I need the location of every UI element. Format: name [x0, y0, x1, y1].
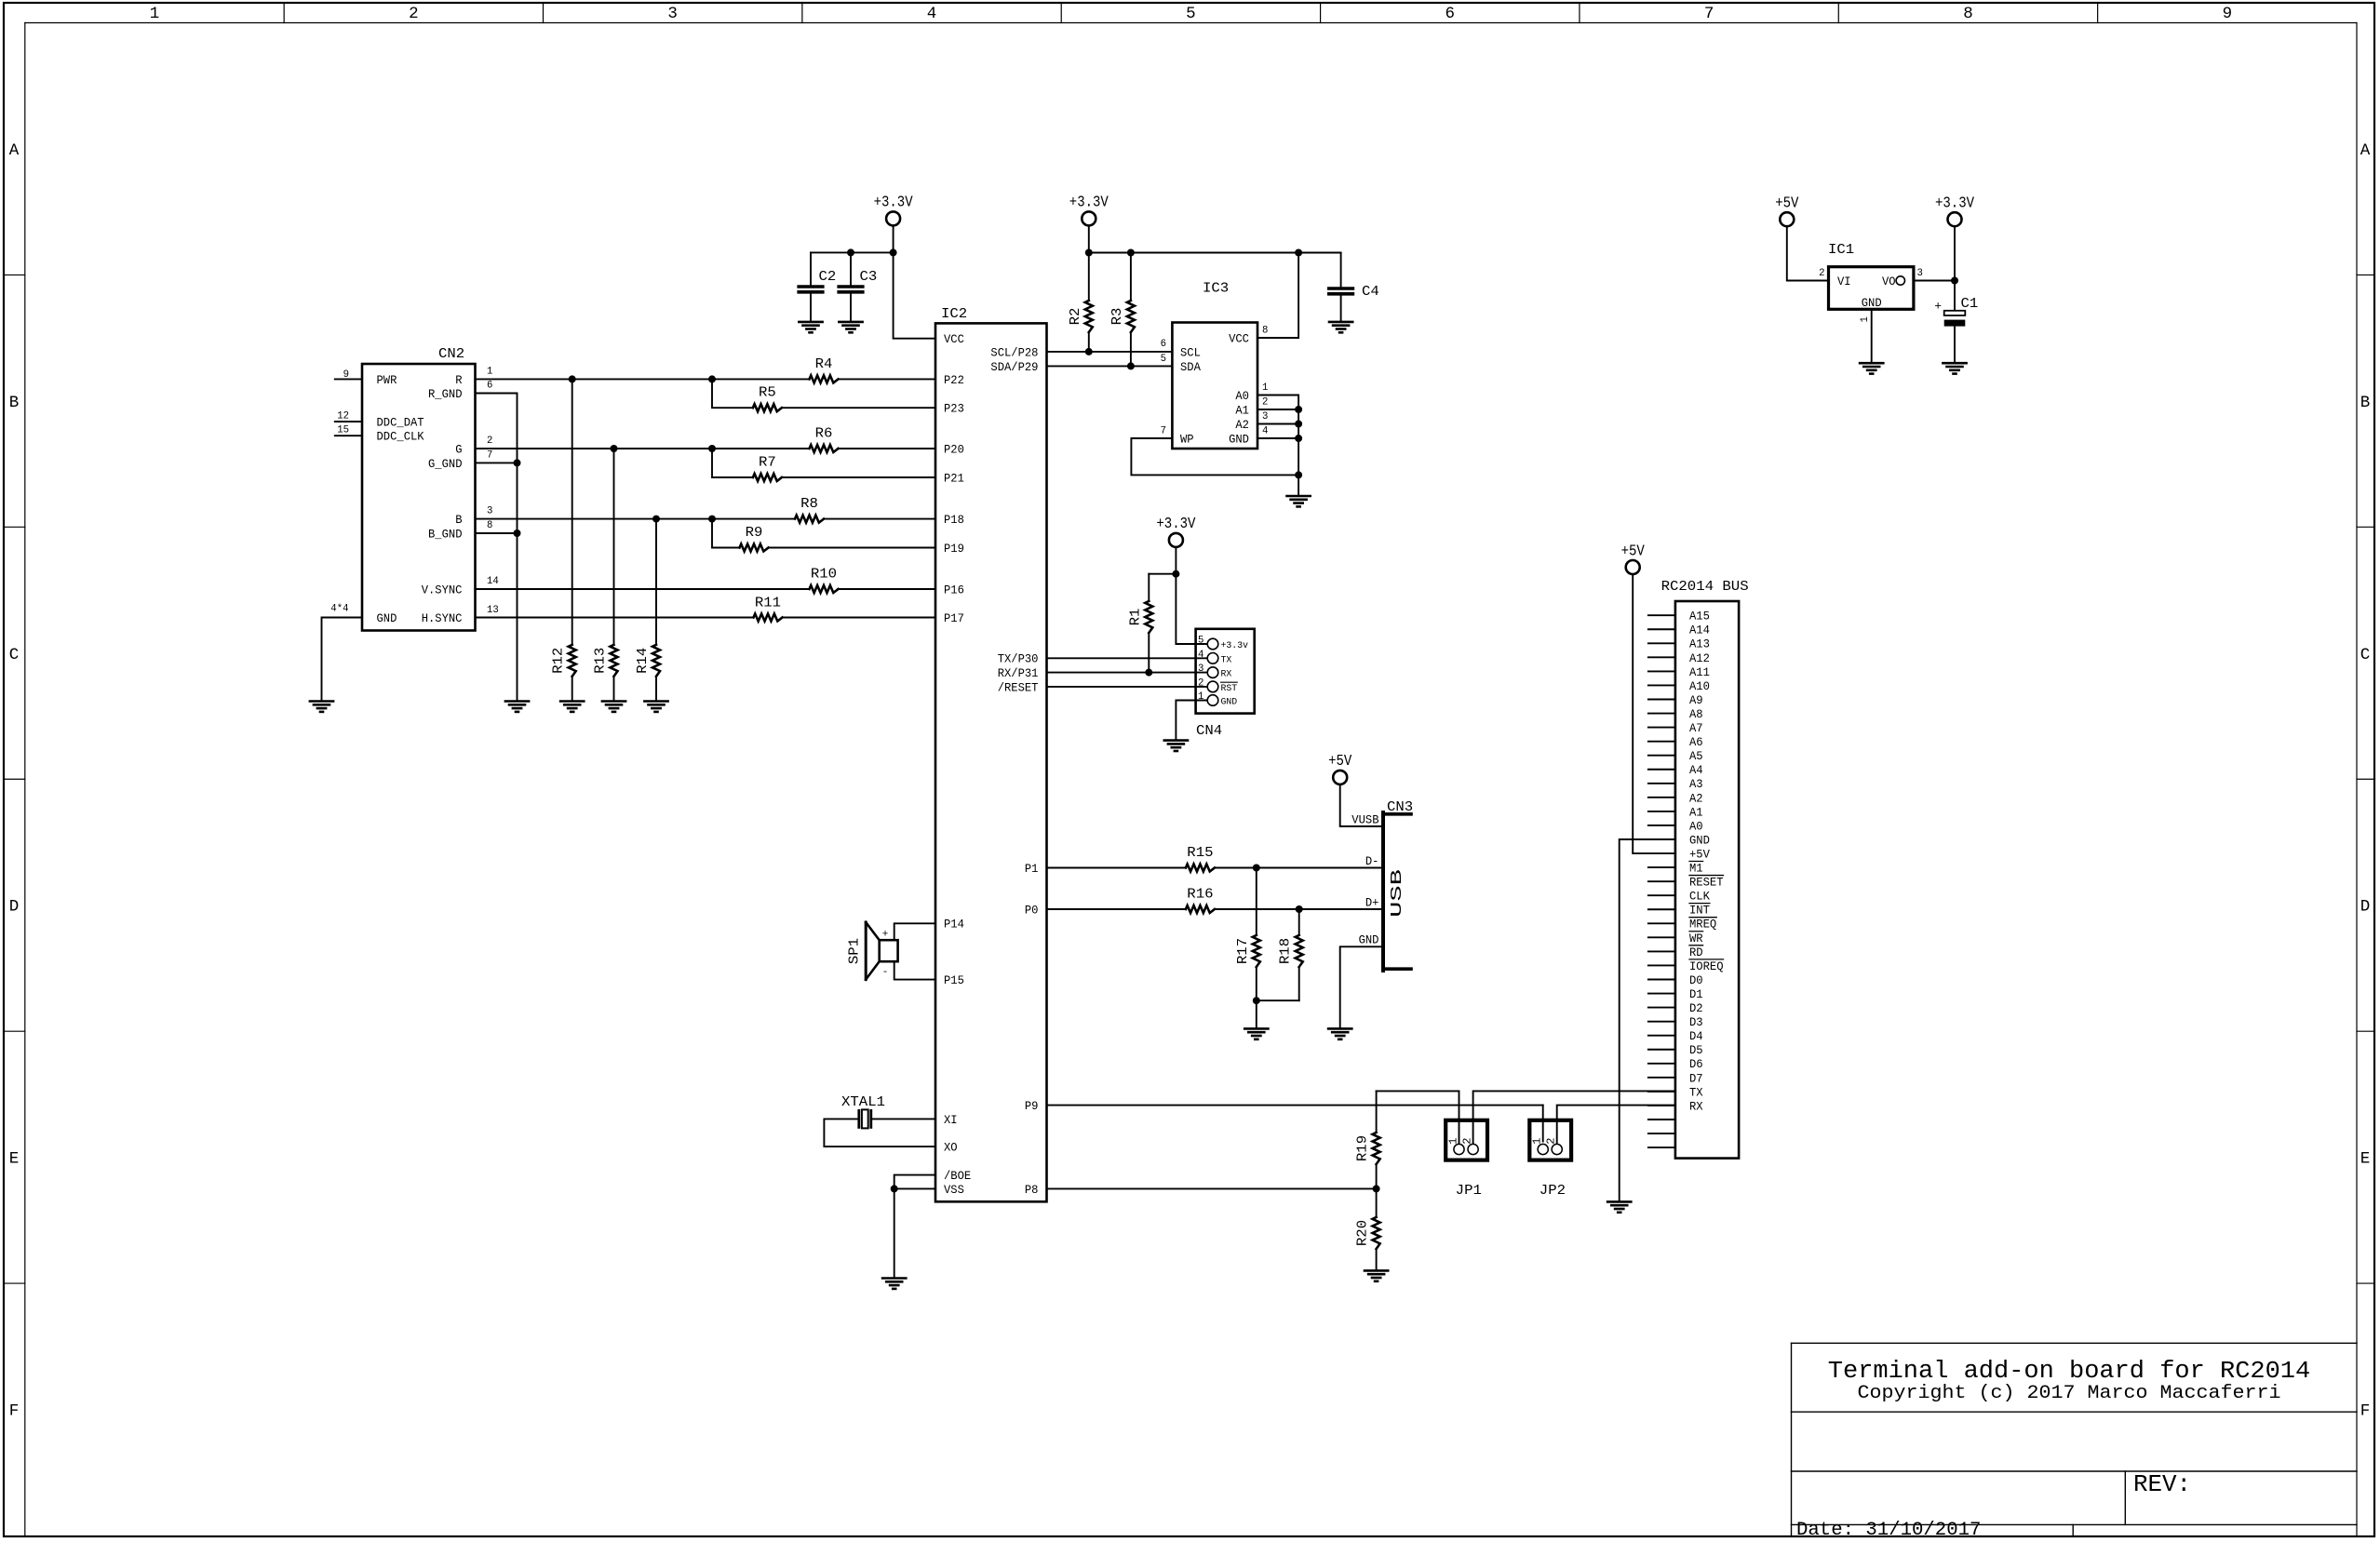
- svg-text:JP2: JP2: [1540, 1183, 1566, 1199]
- svg-text:R15: R15: [1187, 845, 1213, 861]
- svg-text:TX: TX: [1221, 655, 1232, 665]
- svg-text:MREQ: MREQ: [1689, 918, 1716, 932]
- svg-text:6: 6: [1161, 339, 1166, 350]
- svg-text:2: 2: [1545, 1138, 1558, 1145]
- svg-text:4: 4: [927, 5, 937, 23]
- svg-text:XI: XI: [944, 1114, 958, 1127]
- svg-text:PWR: PWR: [377, 374, 397, 387]
- svg-text:C2: C2: [819, 269, 837, 285]
- svg-text:7: 7: [1161, 426, 1166, 437]
- svg-text:1: 1: [1446, 1138, 1459, 1145]
- svg-text:D0: D0: [1689, 974, 1703, 987]
- svg-text:A12: A12: [1689, 652, 1710, 665]
- svg-text:INT: INT: [1689, 905, 1710, 918]
- svg-text:RESET: RESET: [1689, 877, 1724, 890]
- svg-text:P18: P18: [944, 514, 964, 527]
- svg-text:9: 9: [343, 369, 349, 381]
- svg-text:Copyright (c) 2017 Marco Macca: Copyright (c) 2017 Marco Maccaferri: [1858, 1383, 2281, 1404]
- svg-text:H.SYNC: H.SYNC: [422, 612, 463, 625]
- svg-text:F: F: [9, 1402, 20, 1421]
- svg-text:RX: RX: [1221, 670, 1232, 680]
- svg-text:A6: A6: [1689, 736, 1703, 749]
- svg-text:P17: P17: [944, 612, 964, 625]
- svg-text:/RESET: /RESET: [998, 681, 1039, 694]
- svg-text:+5V: +5V: [1689, 848, 1710, 861]
- svg-text:A3: A3: [1689, 778, 1703, 791]
- svg-text:RX/P31: RX/P31: [998, 667, 1039, 680]
- svg-text:2: 2: [1819, 268, 1824, 279]
- svg-text:R17: R17: [1235, 938, 1251, 964]
- svg-text:4: 4: [1262, 426, 1269, 437]
- svg-text:C1: C1: [1961, 296, 1979, 312]
- svg-text:A2: A2: [1235, 419, 1249, 432]
- svg-text:SDA/P29: SDA/P29: [990, 361, 1038, 374]
- svg-text:3: 3: [1262, 411, 1268, 422]
- svg-text:1: 1: [150, 5, 160, 23]
- svg-text:R: R: [455, 374, 463, 387]
- svg-text:F: F: [2360, 1402, 2371, 1421]
- svg-text:REV:: REV:: [2133, 1470, 2191, 1498]
- svg-text:3: 3: [1917, 268, 1923, 279]
- svg-text:WP: WP: [1180, 433, 1194, 446]
- svg-text:A1: A1: [1235, 404, 1249, 417]
- svg-text:R5: R5: [759, 385, 776, 401]
- svg-text:P23: P23: [944, 403, 964, 416]
- svg-text:A9: A9: [1689, 694, 1703, 707]
- svg-text:VI: VI: [1837, 275, 1851, 288]
- svg-text:M1: M1: [1689, 863, 1703, 876]
- svg-text:2: 2: [1198, 677, 1203, 689]
- svg-text:2: 2: [1460, 1138, 1473, 1145]
- svg-text:+5V: +5V: [1328, 753, 1351, 771]
- svg-text:15: 15: [337, 425, 349, 436]
- svg-text:P19: P19: [944, 543, 964, 556]
- svg-text:A2: A2: [1689, 792, 1703, 805]
- svg-text:Terminal add-on board for RC20: Terminal add-on board for RC2014: [1828, 1358, 2310, 1385]
- svg-text:+5V: +5V: [1775, 195, 1798, 213]
- svg-text:+3.3V: +3.3V: [1156, 516, 1195, 533]
- svg-text:VO: VO: [1882, 275, 1896, 288]
- svg-text:+3.3V: +3.3V: [1069, 194, 1109, 212]
- svg-text:DDC_CLK: DDC_CLK: [377, 431, 425, 444]
- svg-text:+: +: [1934, 300, 1942, 314]
- svg-text:A13: A13: [1689, 638, 1710, 651]
- svg-text:CN2: CN2: [438, 346, 464, 362]
- svg-text:GND: GND: [377, 612, 397, 625]
- svg-text:CLK: CLK: [1689, 891, 1710, 904]
- svg-text:D5: D5: [1689, 1044, 1703, 1057]
- svg-text:8: 8: [1262, 325, 1268, 336]
- svg-text:P9: P9: [1025, 1100, 1039, 1113]
- svg-text:GND: GND: [1689, 834, 1710, 847]
- svg-text:C: C: [2360, 646, 2371, 664]
- svg-text:2: 2: [409, 5, 419, 23]
- svg-text:SCL/P28: SCL/P28: [990, 346, 1038, 359]
- svg-text:VCC: VCC: [1229, 332, 1249, 345]
- svg-text:GND: GND: [1229, 433, 1249, 446]
- svg-text:R11: R11: [755, 595, 781, 610]
- svg-text:D1: D1: [1689, 988, 1703, 1001]
- svg-text:V.SYNC: V.SYNC: [422, 583, 463, 597]
- svg-text:R20: R20: [1355, 1220, 1371, 1246]
- svg-text:XO: XO: [944, 1142, 958, 1155]
- svg-text:+3.3V: +3.3V: [1935, 195, 1974, 213]
- svg-text:R7: R7: [759, 454, 776, 470]
- svg-text:5: 5: [1198, 636, 1203, 647]
- svg-text:4*4: 4*4: [330, 604, 349, 615]
- svg-text:P16: P16: [944, 583, 964, 597]
- svg-text:R19: R19: [1355, 1135, 1371, 1161]
- svg-text:3: 3: [1198, 664, 1203, 675]
- svg-text:B: B: [455, 514, 463, 527]
- svg-text:A7: A7: [1689, 722, 1703, 735]
- svg-text:R18: R18: [1278, 938, 1294, 964]
- svg-text:A8: A8: [1689, 708, 1703, 721]
- svg-text:RX: RX: [1689, 1100, 1703, 1113]
- svg-text:GND: GND: [1359, 934, 1379, 947]
- svg-text:E: E: [2360, 1150, 2371, 1169]
- svg-text:4: 4: [1198, 650, 1204, 661]
- svg-text:R2: R2: [1068, 308, 1083, 326]
- svg-text:P14: P14: [944, 918, 964, 932]
- svg-text:A15: A15: [1689, 610, 1710, 624]
- svg-text:P21: P21: [944, 472, 964, 485]
- svg-text:D4: D4: [1689, 1030, 1703, 1043]
- svg-text:C4: C4: [1362, 284, 1379, 300]
- svg-text:8: 8: [1963, 5, 1973, 23]
- svg-text:+: +: [882, 930, 889, 941]
- svg-text:P1: P1: [1025, 863, 1039, 876]
- svg-text:VSS: VSS: [944, 1184, 964, 1197]
- svg-text:D: D: [9, 898, 20, 917]
- svg-text:13: 13: [487, 605, 499, 616]
- svg-text:A0: A0: [1689, 820, 1703, 833]
- svg-text:+3.3v: +3.3v: [1221, 641, 1249, 651]
- svg-text:A0: A0: [1235, 390, 1249, 403]
- svg-text:GND: GND: [1221, 698, 1238, 708]
- svg-text:1: 1: [487, 367, 493, 378]
- svg-text:TX: TX: [1689, 1086, 1703, 1099]
- svg-text:12: 12: [337, 411, 349, 422]
- svg-text:8: 8: [487, 520, 492, 531]
- svg-text:A4: A4: [1689, 764, 1703, 777]
- svg-text:1: 1: [1860, 316, 1871, 323]
- svg-text:A: A: [2360, 141, 2371, 160]
- svg-text:A11: A11: [1689, 666, 1710, 679]
- svg-text:SDA: SDA: [1180, 361, 1201, 374]
- svg-text:A: A: [9, 141, 20, 160]
- svg-text:3: 3: [667, 5, 678, 23]
- svg-text:6: 6: [487, 381, 492, 392]
- svg-text:R3: R3: [1109, 308, 1125, 326]
- svg-text:R4: R4: [815, 356, 833, 372]
- svg-text:D6: D6: [1689, 1058, 1703, 1071]
- svg-text:R14: R14: [635, 648, 651, 674]
- svg-text:GND: GND: [1862, 297, 1882, 310]
- svg-text:P22: P22: [944, 374, 964, 387]
- svg-text:WR: WR: [1689, 932, 1703, 945]
- svg-text:R8: R8: [800, 496, 818, 512]
- svg-text:CN4: CN4: [1196, 723, 1222, 739]
- svg-text:IC1: IC1: [1828, 242, 1854, 258]
- svg-text:5: 5: [1161, 354, 1166, 365]
- svg-text:D7: D7: [1689, 1072, 1703, 1085]
- svg-text:D+: D+: [1365, 896, 1379, 909]
- svg-text:JP1: JP1: [1456, 1183, 1482, 1199]
- svg-text:P8: P8: [1025, 1184, 1039, 1197]
- svg-text:B: B: [9, 394, 20, 412]
- svg-text:RST: RST: [1221, 684, 1238, 694]
- svg-text:IC2: IC2: [941, 306, 967, 322]
- svg-text:G: G: [455, 443, 462, 456]
- svg-text:/BOE: /BOE: [944, 1170, 971, 1183]
- svg-text:7: 7: [1704, 5, 1714, 23]
- svg-text:A5: A5: [1689, 750, 1703, 763]
- svg-text:RC2014 BUS: RC2014 BUS: [1661, 579, 1749, 595]
- svg-text:A10: A10: [1689, 680, 1710, 693]
- svg-text:R6: R6: [815, 425, 833, 441]
- svg-text:IC3: IC3: [1203, 281, 1229, 297]
- svg-text:A14: A14: [1689, 624, 1710, 637]
- svg-text:G_GND: G_GND: [428, 458, 463, 471]
- svg-text:R10: R10: [811, 566, 837, 582]
- svg-text:R13: R13: [593, 648, 609, 674]
- svg-text:7: 7: [487, 450, 492, 462]
- svg-text:P15: P15: [944, 974, 964, 987]
- svg-text:D3: D3: [1689, 1016, 1703, 1029]
- svg-text:RD: RD: [1689, 946, 1703, 959]
- svg-text:VUSB: VUSB: [1351, 813, 1379, 826]
- svg-text:5: 5: [1186, 5, 1196, 23]
- svg-text:3: 3: [487, 506, 492, 517]
- svg-text:+3.3V: +3.3V: [874, 194, 913, 212]
- svg-text:14: 14: [487, 576, 499, 587]
- svg-text:C3: C3: [860, 269, 878, 285]
- svg-text:B: B: [2360, 394, 2371, 412]
- svg-text:P20: P20: [944, 443, 964, 456]
- svg-text:TX/P30: TX/P30: [998, 653, 1039, 666]
- svg-text:B_GND: B_GND: [428, 528, 463, 541]
- svg-text:A1: A1: [1689, 806, 1703, 819]
- svg-text:R9: R9: [746, 525, 763, 541]
- svg-text:+5V: +5V: [1621, 543, 1645, 560]
- svg-text:SP1: SP1: [846, 938, 862, 964]
- svg-text:D-: D-: [1365, 855, 1379, 868]
- svg-text:1: 1: [1198, 691, 1204, 703]
- svg-text:Date: 31/10/2017: Date: 31/10/2017: [1796, 1520, 1981, 1541]
- svg-text:P0: P0: [1025, 904, 1039, 917]
- svg-text:R12: R12: [551, 648, 567, 674]
- svg-text:USB: USB: [1389, 869, 1406, 918]
- svg-text:VCC: VCC: [944, 333, 964, 346]
- svg-text:2: 2: [487, 436, 492, 447]
- svg-text:IOREQ: IOREQ: [1689, 960, 1724, 973]
- svg-text:DDC_DAT: DDC_DAT: [377, 416, 425, 429]
- svg-text:E: E: [9, 1150, 20, 1169]
- svg-text:R16: R16: [1187, 886, 1213, 902]
- svg-text:D: D: [2360, 898, 2371, 917]
- svg-text:SCL: SCL: [1180, 346, 1201, 359]
- svg-text:C: C: [9, 646, 20, 664]
- svg-text:XTAL1: XTAL1: [841, 1094, 885, 1110]
- svg-text:2: 2: [1262, 397, 1268, 409]
- svg-text:R1: R1: [1127, 609, 1143, 626]
- svg-text:9: 9: [2223, 5, 2233, 23]
- svg-text:6: 6: [1445, 5, 1455, 23]
- svg-text:-: -: [882, 967, 889, 978]
- svg-text:1: 1: [1262, 382, 1269, 394]
- svg-text:D2: D2: [1689, 1002, 1703, 1015]
- svg-text:1: 1: [1531, 1138, 1544, 1145]
- svg-text:R_GND: R_GND: [428, 388, 463, 401]
